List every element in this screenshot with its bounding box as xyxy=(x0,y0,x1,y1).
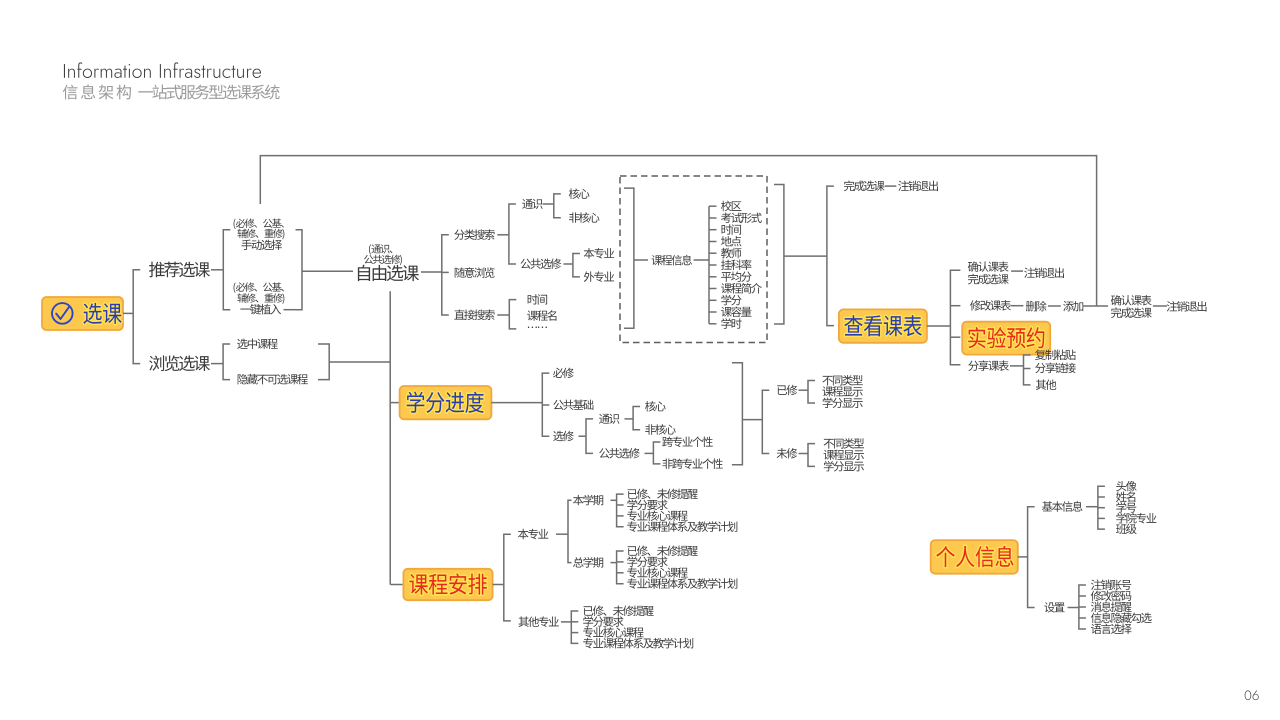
wire 基本信息 to bracket xyxy=(1086,506,1098,508)
node 课程显示 (已修) xyxy=(822,386,862,396)
bracket 手动选择/一键植入 left xyxy=(223,230,230,310)
node 学时 xyxy=(709,318,742,329)
node 浏览选课 xyxy=(149,355,210,371)
node 手动选择 (必修、公基、辅修、重修) xyxy=(234,219,285,251)
node 学分显示 (已修) xyxy=(823,397,863,408)
bracket 基本信息 items xyxy=(1098,486,1105,529)
bracket collect inputs (inside dashed box) xyxy=(624,188,634,328)
node 已修、未修提醒 (本学期) xyxy=(628,489,698,499)
node 必修 xyxy=(553,368,574,378)
node 通识 (学分进度) xyxy=(599,414,619,424)
bracket 核心/非核心 (学分进度) xyxy=(633,407,640,430)
node 信息隐藏勾选 xyxy=(1091,612,1152,623)
node 未修 xyxy=(777,448,798,458)
node 公共选修 (学分进度) xyxy=(599,448,640,459)
node 通识 xyxy=(522,199,542,209)
wire to final 注销退出 xyxy=(1153,305,1167,307)
wire trunk vertical 自由选课 down xyxy=(389,291,391,584)
wire 完成选课 to 注销退出 xyxy=(885,185,897,187)
node 课容量 xyxy=(709,306,752,317)
node 时间 xyxy=(528,294,548,304)
node 学分 xyxy=(709,295,742,306)
wire collect to 已修/未修 bracket xyxy=(742,419,762,421)
bracket 通识/公共选修 (学分进度) xyxy=(586,419,593,454)
bracket 查看课表 children xyxy=(950,270,960,365)
wire bracket to 课程信息 xyxy=(634,259,648,261)
node 头像 xyxy=(1116,481,1136,491)
bracket 选中课程/隐藏不可选课程 right xyxy=(318,344,329,380)
wire 查看课表 to children bracket xyxy=(927,325,951,327)
node 学院专业 xyxy=(1116,513,1156,524)
node 姓名 xyxy=(1116,491,1135,502)
bracket share options xyxy=(1024,355,1031,385)
node 专业核心课程 (总学期) xyxy=(627,567,687,578)
node 推荐选课 xyxy=(149,262,210,278)
node 语言选择 xyxy=(1091,624,1132,635)
node 平均分 xyxy=(709,271,752,282)
wire 未修 to bracket xyxy=(799,453,809,455)
bracket 本专业/其他专业 xyxy=(504,534,511,621)
wire 自由选课 to search bracket xyxy=(421,271,442,273)
wire 公共选修 to bracket xyxy=(645,452,654,454)
node 公共选修 xyxy=(521,258,562,269)
node 基本信息 xyxy=(1042,501,1082,512)
wire 浏览选课 to bracket xyxy=(211,363,223,365)
node 不同类型 (已修) xyxy=(822,375,862,385)
node 直接搜索 xyxy=(454,310,494,321)
node 学号 xyxy=(1116,502,1136,513)
node 专业课程体系及教学计划 (总学期) xyxy=(627,578,737,589)
bracket 设置 items xyxy=(1079,585,1086,629)
bracket 手动选择/一键植入 right xyxy=(296,230,303,310)
wire 设置 to bracket xyxy=(1068,607,1079,609)
wire top loop (完成选课 back to start) xyxy=(260,156,1096,307)
node 教师 xyxy=(709,248,741,259)
node 注销账号 xyxy=(1091,579,1131,590)
node 其他 xyxy=(1036,379,1056,389)
page number 06 xyxy=(1245,690,1259,700)
bracket 其他专业 items xyxy=(571,611,578,643)
node 注销退出 xyxy=(898,181,938,192)
bracket 学分进度 collect right xyxy=(732,363,743,465)
node 修改密码 xyxy=(1091,590,1132,601)
bracket course info list xyxy=(708,206,710,324)
wire 通识 to bracket xyxy=(543,203,554,205)
node 复制粘贴 xyxy=(1035,350,1076,360)
node 跨专业个性 xyxy=(662,437,713,448)
node 已修 xyxy=(777,385,797,395)
node 课程名 xyxy=(527,310,556,321)
wire 选修 to bracket xyxy=(579,435,587,437)
node 学分要求 (总学期) xyxy=(627,556,667,567)
node 不同类型 (未修) xyxy=(824,438,864,448)
bracket level1 (推荐选课/浏览选课) xyxy=(133,270,140,364)
node 删除 xyxy=(1026,301,1047,312)
bracket 必修/公共基础/选修 xyxy=(542,373,549,436)
wire 其他专业 to bracket xyxy=(561,621,571,623)
bracket 已修 displays xyxy=(808,381,815,404)
node 本专业 (课程安排) xyxy=(518,529,548,540)
node 隐藏不可选课程 xyxy=(238,374,308,385)
wire 公共选修 to bracket xyxy=(564,263,573,265)
node 分享课表 xyxy=(968,360,1009,371)
wire bracket to 自由选课 xyxy=(302,270,353,272)
wire trunk to 学分进度 xyxy=(390,402,399,404)
node 分类搜索 xyxy=(454,229,494,240)
node 挂科率 xyxy=(709,259,751,270)
node 设置 xyxy=(1044,602,1064,612)
bracket 总学期 items xyxy=(617,551,624,584)
wire 已修 to bracket xyxy=(799,389,809,391)
wire 选课 to level1 bracket xyxy=(123,312,133,314)
node 班级 xyxy=(1116,524,1137,535)
node 一键植入 (必修、公基、辅修、重修) xyxy=(234,282,285,314)
title Information Infrastructure xyxy=(64,62,261,78)
node 时间 xyxy=(709,224,741,234)
node 添加 xyxy=(1063,301,1083,311)
wire 添加 to junction xyxy=(1083,305,1109,307)
node 外专业 xyxy=(584,271,614,282)
wire 课程信息 to list bracket xyxy=(694,259,709,261)
node 本专业 xyxy=(584,248,614,259)
wire 个人信息 to bracket xyxy=(1018,556,1028,558)
bracket 跨专业个性/非跨专业个性 xyxy=(653,442,660,464)
bracket 完成选课/查看课表 xyxy=(827,186,834,326)
dashed box 课程信息 group xyxy=(620,176,767,343)
wire 本学期 to bracket xyxy=(611,499,617,501)
node 随意浏览 xyxy=(455,267,495,278)
node 消息提醒 xyxy=(1091,601,1132,612)
node 选修 xyxy=(553,431,574,441)
node 非核心 (学分进度) xyxy=(645,424,675,435)
wire trunk to 课程安排 xyxy=(390,584,403,586)
node 确认课表/完成选课 (final) xyxy=(1111,295,1152,318)
node 个人信息 (yellow box, red text) xyxy=(931,540,1018,574)
node 本学期 xyxy=(573,495,603,506)
node 核心 xyxy=(569,188,590,199)
node 学分要求 (其他专业) xyxy=(583,616,623,627)
node 选课 (root, yellow box with check icon) xyxy=(42,297,123,330)
bracket 核心/非核心 xyxy=(554,194,561,218)
wire 分享课表 to bracket xyxy=(1010,365,1024,367)
node 核心 (学分进度) xyxy=(645,401,666,412)
wire 分类搜索 to bracket xyxy=(497,234,509,236)
node 确认课表/完成选课 xyxy=(968,261,1009,284)
wire to 注销退出 xyxy=(1011,270,1023,272)
node 总学期 xyxy=(573,557,603,568)
bracket 时间/课程名/...... xyxy=(509,300,516,329)
node 自由选课 (通识、公共选修) xyxy=(358,244,419,281)
node 学分要求 (本学期) xyxy=(627,499,667,510)
node 专业课程体系及教学计划 (本学期) xyxy=(627,521,737,532)
node 校区 xyxy=(709,201,741,212)
node ...... xyxy=(528,327,547,329)
node 其他专业 xyxy=(519,616,559,627)
bracket 分类搜索/随意浏览/直接搜索 xyxy=(442,235,449,315)
node 课程显示 (未修) xyxy=(824,450,864,460)
node 专业课程体系及教学计划 (其他专业) xyxy=(583,638,693,649)
wire 推荐选课 to bracket xyxy=(211,269,223,271)
node 完成选课 xyxy=(844,181,885,192)
node 分享链接 xyxy=(1035,363,1076,374)
wire 本专业 to bracket xyxy=(556,533,568,535)
subtitle 信息架构 一站式服务型选课系统 xyxy=(63,85,280,100)
bracket 本学期 items xyxy=(617,494,624,527)
wire 通识 to bracket xyxy=(625,418,634,420)
bracket 通识/公共选修 xyxy=(509,204,516,264)
node 实验预约 (yellow box, red text) xyxy=(962,322,1050,355)
node 学分显示 (未修) xyxy=(824,461,864,472)
node 地点 xyxy=(709,236,741,246)
wire 课程安排 to bracket xyxy=(493,584,504,586)
node 查看课表 (yellow box) xyxy=(839,309,927,342)
bracket 选中课程/隐藏不可选课程 left xyxy=(223,344,230,380)
wire 学分进度 to bracket xyxy=(491,402,542,404)
node 修改课表 xyxy=(970,300,1011,311)
wire to 完成选课/查看课表 bracket xyxy=(784,255,827,257)
wire bracket to trunk xyxy=(329,361,390,363)
bracket 未修 displays xyxy=(808,444,815,467)
node 注销退出 xyxy=(1024,267,1064,278)
node 课程信息 xyxy=(652,255,692,266)
node 专业核心课程 (其他专业) xyxy=(583,627,643,638)
wire 一键植入 to right bracket xyxy=(284,309,296,311)
node 非跨专业个性 xyxy=(662,458,722,469)
node 已修、未修提醒 (总学期) xyxy=(628,546,698,556)
bracket 已修/未修 xyxy=(762,390,769,453)
bracket 本学期/总学期 xyxy=(568,500,572,562)
node 已修、未修提醒 (其他专业) xyxy=(584,606,654,616)
node 选中课程 xyxy=(237,339,278,349)
bracket 本专业/外专业 xyxy=(573,254,580,277)
node 考试形式 xyxy=(709,213,762,224)
node 课程简介 xyxy=(709,283,762,294)
node 课程安排 (yellow box, red text) xyxy=(403,569,492,600)
wire 总学期 to bracket xyxy=(611,562,617,564)
wire 修改课表 to 删除 xyxy=(1011,305,1024,307)
node 公共基础 xyxy=(553,400,593,410)
wire 删除 to 添加 xyxy=(1048,305,1061,307)
wire 直接搜索 to bracket xyxy=(497,314,509,316)
node 学分进度 (yellow box) xyxy=(400,386,492,419)
bracket dashed box output (right) xyxy=(774,185,784,325)
node 专业核心课程 (本学期) xyxy=(627,510,687,521)
node 非核心 xyxy=(569,212,599,223)
bracket 基本信息/设置 xyxy=(1028,507,1035,608)
node 注销退出 (final) xyxy=(1167,301,1207,312)
